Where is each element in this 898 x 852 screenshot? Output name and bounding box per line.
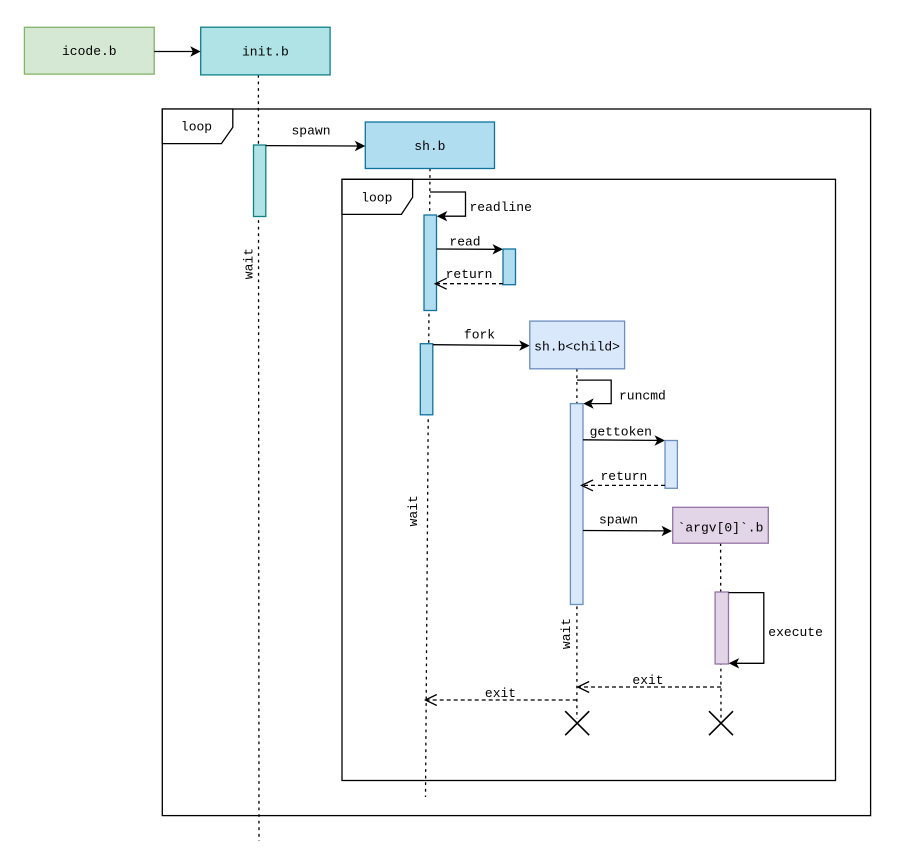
self message readline xyxy=(430,192,466,216)
inner loop frame label pentagon xyxy=(342,179,413,214)
arrow icode.b to init.b xyxy=(154,51,193,53)
self message execute xyxy=(729,593,764,664)
svg-text:return: return xyxy=(600,469,647,484)
message gettoken xyxy=(583,439,658,442)
message exit 2 (child to sh.b, dashed) xyxy=(427,699,577,701)
box icode.b xyxy=(24,27,154,74)
svg-text:spawn: spawn xyxy=(599,512,638,527)
message return (dashed) xyxy=(437,283,503,285)
message fork xyxy=(433,344,523,347)
svg-text:fork: fork xyxy=(464,328,495,343)
svg-text:read: read xyxy=(449,235,480,250)
svg-text:exit: exit xyxy=(485,686,516,701)
svg-text:exit: exit xyxy=(632,673,663,688)
svg-text:wait: wait xyxy=(559,618,574,649)
destruction X child xyxy=(565,711,589,735)
svg-text:execute: execute xyxy=(768,625,823,640)
message spawn (init to sh.b) xyxy=(266,145,359,147)
svg-text:init.b: init.b xyxy=(242,45,289,60)
activation init xyxy=(254,145,266,217)
message spawn 2 xyxy=(583,530,665,532)
outer loop frame xyxy=(162,109,870,816)
message read xyxy=(437,248,497,250)
activation gettoken target xyxy=(665,441,677,489)
lifeline argv xyxy=(720,543,722,719)
box init.b xyxy=(201,27,330,75)
lifeline init xyxy=(257,75,260,841)
svg-text:return: return xyxy=(446,267,493,282)
activation argv xyxy=(715,592,728,664)
lifeline sh.b xyxy=(426,169,431,798)
activation read target xyxy=(503,249,516,285)
self message runcmd xyxy=(577,380,611,404)
svg-text:loop: loop xyxy=(361,191,392,206)
message return 2 (dashed) xyxy=(583,484,665,486)
destruction X argv xyxy=(709,711,733,735)
lifeline sh.b child xyxy=(576,369,578,719)
box sh.b child xyxy=(530,321,625,369)
activation sh.b fork xyxy=(420,344,433,415)
box argv xyxy=(673,507,769,543)
outer loop frame label pentagon xyxy=(162,109,233,144)
svg-text:wait: wait xyxy=(242,248,257,279)
svg-text:`argv[0]`.b: `argv[0]`.b xyxy=(678,520,764,535)
activation sh.b child xyxy=(570,404,583,605)
svg-text:wait: wait xyxy=(406,495,421,526)
svg-text:loop: loop xyxy=(181,119,212,134)
svg-text:sh.b<child>: sh.b<child> xyxy=(534,340,620,355)
svg-text:runcmd: runcmd xyxy=(619,389,666,404)
svg-text:gettoken: gettoken xyxy=(590,425,652,440)
svg-text:spawn: spawn xyxy=(291,124,330,139)
svg-text:sh.b: sh.b xyxy=(414,139,445,154)
message exit 1 (argv to child, dashed) xyxy=(579,686,721,688)
box sh.b xyxy=(365,122,494,169)
svg-text:icode.b: icode.b xyxy=(62,44,117,59)
svg-text:readline: readline xyxy=(470,200,532,215)
inner loop frame xyxy=(342,179,836,780)
activation sh.b readline xyxy=(424,215,437,311)
